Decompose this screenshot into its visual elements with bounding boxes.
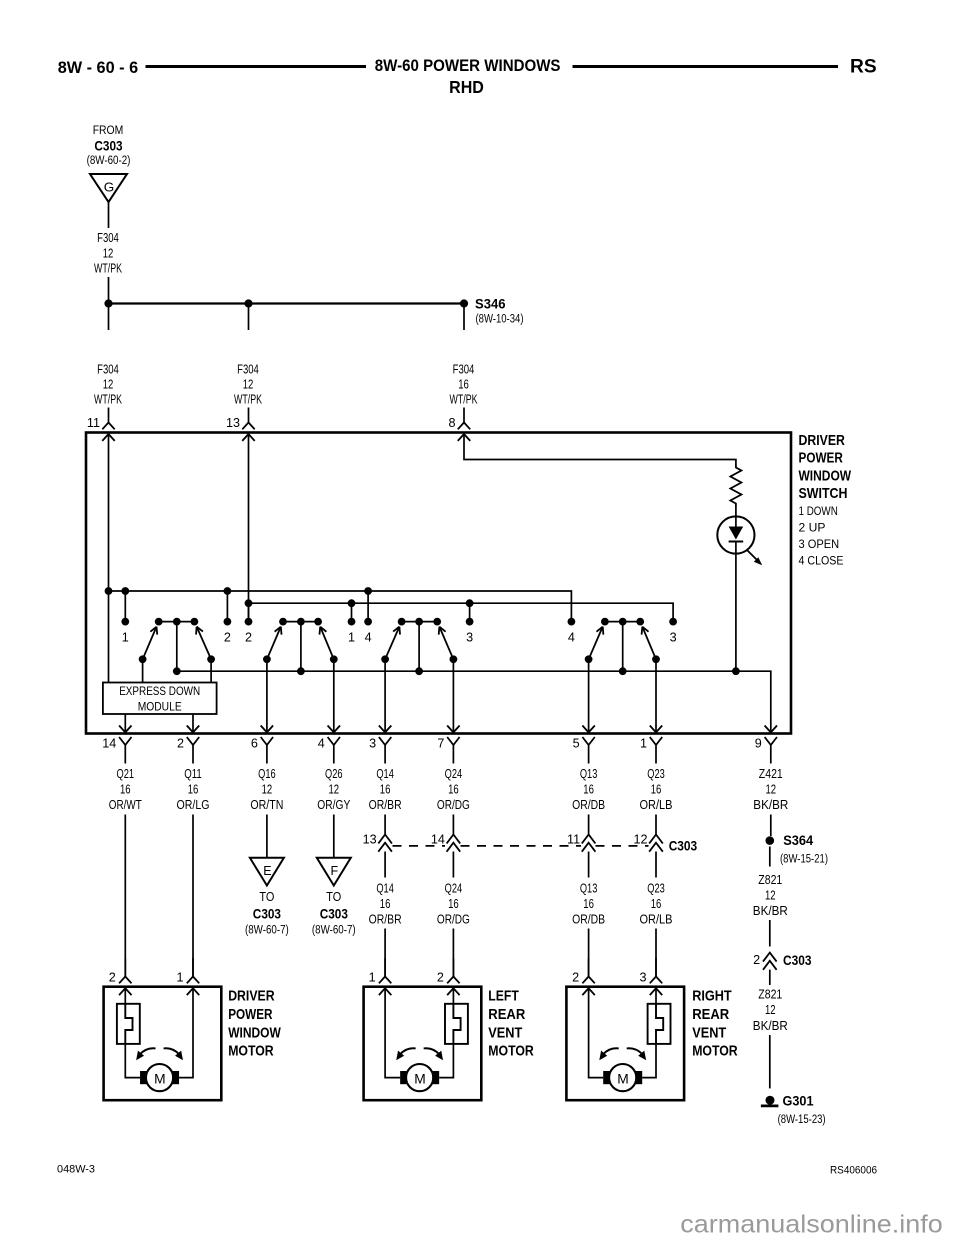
label TO C303 (8W-60-7) [245,890,289,937]
junction dot bus2 contact 3 stub [466,599,474,607]
svg-text:OR/TN: OR/TN [250,798,283,812]
svg-text:3: 3 [639,971,646,985]
ground G301 [761,1094,826,1127]
wire Q26 down to connector F [333,815,335,858]
svg-text:M: M [617,1070,629,1086]
driver power window motor connector arrow pin 1 [187,988,199,995]
left rear vent motor wire breaker to motor [439,1044,453,1078]
svg-text:(8W-10-34): (8W-10-34) [476,314,524,326]
driver power window motor connector arrow pin 2 [119,988,131,995]
svg-text:16: 16 [583,897,594,911]
wire switch contact x=266.9 to box bottom [266,659,268,732]
contact 4 stub x=368.1 [364,591,372,645]
svg-text:14: 14 [431,833,445,847]
svg-text:Q13: Q13 [580,767,598,781]
wire label F304 16 WT/PK [450,363,478,407]
svg-text:OR/DB: OR/DB [572,913,605,927]
wire label F304 12 WT/PK [234,363,262,407]
svg-text:16: 16 [651,783,662,797]
wire label Q14 16 OR/BR [369,767,402,812]
bus wire contacts 2-1-3 (lower) [249,603,674,621]
connector arrow into switch pin 11 [102,434,114,441]
splice S364 [766,833,829,866]
svg-text:Q11: Q11 [184,767,202,781]
svg-text:3: 3 [670,631,677,645]
svg-text:7: 7 [437,737,444,751]
wire label Q26 12 OR/GY [317,767,350,812]
svg-text:OR/LB: OR/LB [640,913,673,927]
wire label Q21 16 OR/WT [109,767,142,812]
wire Q21 to driver motor [124,815,126,977]
wire Z421 to splice S364 [770,815,772,837]
wire module output to pin 14 [124,714,126,732]
left rear vent motor circuit breaker [445,1004,468,1044]
wire switch contact x=588.6 to box bottom [588,659,590,732]
svg-text:2: 2 [224,631,231,645]
connector arrow out of switch pin 7 [447,725,459,732]
svg-text:16: 16 [380,897,391,911]
svg-text:OR/DG: OR/DG [437,798,470,812]
svg-text:2: 2 [437,971,444,985]
wire label Q13 16 OR/DB [572,767,605,812]
svg-text:F: F [330,864,338,878]
svg-text:E: E [263,864,271,878]
svg-text:BK/BR: BK/BR [753,904,788,918]
wire switch contact x=385.1 to box bottom [384,659,386,732]
switch common bus wire [177,671,771,733]
svg-text:1: 1 [176,971,183,985]
svg-text:Z421: Z421 [759,767,783,781]
resistor (illumination dropping) [730,465,741,507]
svg-text:2: 2 [177,737,184,751]
svg-text:OR/BR: OR/BR [369,913,402,927]
svg-text:F304: F304 [237,363,259,377]
wire label F304 12 WT/PK (feed) [94,231,122,276]
connector half (male) pin 7 [437,737,459,764]
svg-text:12: 12 [262,783,273,797]
inline connector C303 dashed gang line [393,845,649,847]
inline connector C303 cavity 11 [567,833,595,852]
left rear vent motor wire into breaker [452,988,454,1004]
svg-text:13: 13 [363,833,377,847]
left rear vent motor wire other side to motor [385,988,400,1077]
connector arrow out of switch pin 6 [261,725,273,732]
wire label Q23 16 OR/LB [640,767,673,812]
svg-text:POWER: POWER [228,1007,273,1023]
wire label Z821 12 BK/BR (lower) [753,987,788,1033]
junction dot bus1 contact 4 stub [364,587,372,595]
svg-text:12: 12 [243,378,254,392]
express down module box [103,683,217,715]
switch wiper driver window [139,618,215,675]
left rear vent motor armature M [400,1064,439,1091]
svg-text:WINDOW: WINDOW [228,1025,281,1041]
wire label Q11 16 OR/LG [177,767,210,812]
svg-text:8W-60 POWER WINDOWS: 8W-60 POWER WINDOWS [375,56,561,75]
wire Q23 upper segment [655,815,657,835]
wire Q13 to motor [588,929,590,977]
driver power window motor box [104,987,222,1100]
junction dot pin13/bus2 [245,599,253,607]
junction dot left [104,299,112,307]
svg-text:carmanualsonline.info: carmanualsonline.info [680,1211,943,1239]
svg-text:12: 12 [633,833,647,847]
wire below S364 [769,847,771,867]
svg-text:OR/WT: OR/WT [109,798,142,812]
right rear vent motor connector arrow pin 3 [650,988,662,995]
inline connector C303 cavity 12 [633,833,662,852]
svg-text:MOTOR: MOTOR [228,1044,274,1060]
junction dot bus2 contact 1 stub [348,599,356,607]
svg-text:2: 2 [245,631,252,645]
contact 2 stub x=248.5 [245,603,253,644]
label TO C303 (8W-60-7) [312,890,356,937]
switch wiper left vent [381,618,457,675]
svg-text:LEFT: LEFT [488,989,519,1005]
splice label S346 (8W-10-34) [475,297,524,326]
svg-text:16: 16 [448,783,459,797]
connector arrow out of switch pin 1 [650,725,662,732]
right rear vent motor rotation arrows [599,1048,646,1060]
wire down to connector pin 11 [108,408,110,423]
svg-text:RHD: RHD [449,77,484,97]
wire pin 11 feed down to express down module [108,434,110,683]
left rear vent motor connector arrow pin 1 [379,988,391,995]
svg-text:1 DOWN: 1 DOWN [799,504,838,518]
svg-text:Q23: Q23 [647,882,665,896]
wire Q13 upper segment [588,815,590,835]
header rule left [146,65,367,68]
wire Q14 upper segment [384,815,386,835]
svg-text:BK/BR: BK/BR [753,1019,788,1033]
svg-text:Q24: Q24 [445,767,463,781]
wire label F304 12 WT/PK [94,363,122,407]
junction dot pin11/bus1 [105,587,113,595]
right rear vent motor wire breaker to motor [642,1044,656,1078]
svg-text:14: 14 [102,737,116,751]
connector half (male) pin 14 [102,737,131,764]
wire F304 branch x=464 [463,304,465,331]
svg-text:11: 11 [567,833,580,847]
svg-text:3 OPEN: 3 OPEN [799,537,840,551]
svg-text:G: G [104,181,115,195]
connector arrow into switch pin 8 [458,434,470,441]
switch box legend 1 DOWN 2 UP 3 OPEN 4 CLOSE [799,504,844,567]
connector half (female) pin 11 [87,416,115,430]
svg-text:2: 2 [109,971,116,985]
svg-text:TO: TO [326,890,341,904]
off-page connector triangle E [250,858,284,886]
svg-text:RS406006: RS406006 [830,1165,877,1177]
svg-text:Q14: Q14 [376,882,394,896]
svg-text:2 UP: 2 UP [799,520,826,534]
right rear vent motor circuit breaker [648,1004,671,1044]
svg-text:16: 16 [188,783,199,797]
svg-text:12: 12 [765,889,776,903]
left rear vent motor rotation arrows [396,1048,443,1060]
svg-text:Q23: Q23 [647,767,665,781]
right rear vent motor wire other side to motor [589,988,604,1077]
right rear vent motor box [566,987,684,1100]
wire label Q23 16 OR/LB (lower) [640,882,673,927]
svg-text:16: 16 [380,783,391,797]
wire from triangle G down [108,202,110,228]
svg-text:(8W-15-23): (8W-15-23) [778,1114,826,1126]
svg-text:RIGHT: RIGHT [692,989,732,1005]
wire Q14 below connector [384,852,386,878]
contact 4 terminal dot (end of bus1) [568,618,576,645]
wire label Q13 16 OR/DB (lower) [572,882,605,927]
off-page connector triangle G [90,174,127,202]
svg-text:WT/PK: WT/PK [94,393,122,407]
switch wiper passenger window [263,618,338,675]
connector arrow out of switch pin 4 [328,725,340,732]
svg-text:8W - 60 - 6: 8W - 60 - 6 [58,58,139,77]
wire pin 13 feed down to contact 2 [248,434,250,622]
inline connector C303 cavity 13 [363,833,392,852]
contact 1 stub x=125.3 [121,591,129,645]
connector half (female) pin 13 [226,416,255,430]
right rear vent motor connector pin 2 [572,958,595,985]
wire module output to pin 2 [192,714,194,732]
connector arrow out of switch pin 5 [582,725,594,732]
wire label Q24 16 OR/DG (lower) [437,882,470,927]
svg-text:Q13: Q13 [580,882,598,896]
splice S346 dot [460,299,468,307]
svg-text:WT/PK: WT/PK [94,262,122,276]
svg-text:Q14: Q14 [376,767,394,781]
svg-text:WT/PK: WT/PK [234,393,262,407]
left rear vent motor box [364,987,482,1100]
wire Q24 upper segment [452,815,454,835]
svg-text:16: 16 [458,378,469,392]
svg-text:C303: C303 [253,907,282,922]
driver power window motor connector pin 1 [176,958,199,985]
svg-text:(8W-60-7): (8W-60-7) [312,925,356,937]
svg-text:4: 4 [318,737,325,751]
svg-text:M: M [414,1070,426,1086]
svg-text:Z821: Z821 [758,987,782,1001]
wire label Q24 16 OR/DG [437,767,470,812]
junction dot LED/common bus [732,667,740,675]
svg-text:MOTOR: MOTOR [488,1044,534,1060]
wire label Z821 12 BK/BR (upper) [753,873,788,918]
connector half (male) pin 2 [177,737,199,764]
right rear vent motor connector arrow pin 2 [582,988,594,995]
off-page connector triangle F [317,858,351,886]
LED emission arrow [748,551,763,566]
svg-text:Q21: Q21 [117,767,135,781]
wire Q13 below connector [588,852,590,878]
splice S346 bus wire [109,302,465,304]
wire label Q16 12 OR/TN [250,767,283,812]
svg-text:DRIVER: DRIVER [799,433,846,449]
svg-text:MOTOR: MOTOR [692,1044,738,1060]
svg-text:RS: RS [850,56,877,77]
wire Z821 to connector C303 [769,920,771,947]
wire label Q14 16 OR/BR (lower) [369,882,402,927]
svg-text:2: 2 [753,953,760,967]
right rear vent motor wire into breaker [655,988,657,1004]
driver power window motor rotation arrows [136,1048,183,1060]
wire F304 branch x=108.5 [108,304,110,331]
svg-text:WT/PK: WT/PK [450,393,478,407]
connector arrow out of switch pin 9 [765,725,777,732]
svg-text:C303: C303 [320,907,349,922]
inline connector C303 cavity 2 (ground) [753,953,812,970]
wire down to connector pin 8 [463,408,465,423]
svg-text:(8W-60-2): (8W-60-2) [87,155,131,167]
connector half (female) pin 8 [448,416,470,430]
svg-text:WINDOW: WINDOW [799,468,852,484]
junction dot bus1 contact 1 stub [121,587,129,595]
left rear vent motor connector pin 1 [369,958,392,985]
svg-text:OR/BR: OR/BR [369,798,402,812]
wire Q14 to motor [384,929,386,977]
driver power window motor connector pin 2 [109,958,132,985]
wire down to splice bus [108,277,110,304]
wire Q16 down to connector E [266,815,268,858]
wire Q24 below connector [452,852,454,878]
right rear vent motor armature M [603,1064,642,1091]
wire F304 branch x=248.5 [248,304,250,331]
svg-text:C303: C303 [94,139,123,154]
connector arrow out of switch pin 2 [187,725,199,732]
wire Q24 to motor [452,929,454,977]
svg-text:S364: S364 [783,833,813,848]
svg-text:8: 8 [448,416,455,430]
svg-text:Z821: Z821 [758,873,782,887]
svg-text:S346: S346 [475,297,506,312]
LED indicator lamp [717,516,754,553]
svg-text:6: 6 [251,737,258,751]
wire Q11 to driver motor [192,815,194,977]
svg-text:2: 2 [572,971,579,985]
svg-text:13: 13 [226,416,240,430]
svg-text:F304: F304 [97,363,119,377]
svg-text:POWER: POWER [799,451,844,467]
wire down to connector pin 13 [248,408,250,423]
svg-text:3: 3 [369,737,376,751]
svg-text:12: 12 [765,1003,776,1017]
svg-text:1: 1 [348,631,355,645]
source label FROM C303 (8W-60-2) [87,123,131,167]
contact 1 stub x=351.5 [348,603,356,644]
wire Z821 to ground G301 [769,1035,771,1088]
svg-text:Q26: Q26 [325,767,343,781]
driver power window motor wire other side to motor [179,988,193,1077]
svg-text:Q24: Q24 [445,882,463,896]
svg-text:12: 12 [766,783,777,797]
bus wire contacts 1-2-4 (upper) [109,591,572,622]
switch wiper right vent [585,618,660,675]
connector half (male) pin 4 [318,737,340,764]
svg-text:OR/GY: OR/GY [317,798,350,812]
wire resistor to LED [735,506,737,516]
wire switch contact x=333.8 to box bottom [333,659,335,732]
svg-text:16: 16 [651,897,662,911]
connector half (male) pin 5 [573,737,595,764]
svg-text:9: 9 [755,737,762,751]
wire switch contact x=453.4 to box bottom [452,659,454,732]
wire LED to common bus [735,554,737,672]
left rear vent motor connector arrow pin 2 [447,988,459,995]
wire Q23 below connector [655,852,657,878]
svg-text:Q16: Q16 [258,767,276,781]
svg-text:F304: F304 [97,231,119,245]
svg-text:4: 4 [568,631,575,645]
svg-text:3: 3 [466,631,473,645]
svg-text:4 CLOSE: 4 CLOSE [799,553,844,567]
svg-text:FROM: FROM [93,123,124,137]
wire label Z421 12 BK/BR [753,767,788,812]
svg-text:12: 12 [329,783,340,797]
right rear vent motor connector pin 3 [639,958,662,985]
connector arrow out of switch pin 3 [379,725,391,732]
driver power window motor armature M [140,1064,179,1091]
svg-text:OR/LG: OR/LG [177,798,210,812]
svg-text:OR/DB: OR/DB [572,798,605,812]
contact 3 stub x=469.6 [466,603,474,644]
connector arrow out of switch pin 14 [119,725,131,732]
svg-text:12: 12 [103,247,114,261]
svg-text:11: 11 [87,416,100,430]
svg-text:F304: F304 [453,363,475,377]
svg-text:1: 1 [369,971,376,985]
svg-text:12: 12 [103,378,114,392]
svg-text:DRIVER: DRIVER [228,989,275,1005]
wire Q23 to motor [655,929,657,977]
svg-text:VENT: VENT [692,1025,726,1041]
svg-text:1: 1 [640,737,647,751]
svg-text:REAR: REAR [692,1007,729,1023]
svg-text:SWITCH: SWITCH [799,486,848,502]
svg-text:1: 1 [122,631,129,645]
junction dot middle [244,299,252,307]
driver power window switch box [86,433,791,734]
svg-text:5: 5 [573,737,580,751]
wire pin 8 feed to illumination lamp [464,434,736,465]
driver power window motor wire into breaker [124,988,126,1004]
switch box label DRIVER POWER WINDOW SWITCH [799,433,852,502]
connector half (male) pin 9 [755,737,777,764]
left rear vent motor label [488,989,534,1060]
wire below C303 ground [769,970,771,985]
svg-text:C303: C303 [783,953,812,968]
connector arrow into switch pin 13 [242,434,254,441]
connector half (male) pin 6 [251,737,273,764]
svg-text:C303: C303 [669,839,698,854]
svg-text:G301: G301 [783,1094,814,1109]
junction dot bus1 contact 2 stub [224,587,232,595]
wire switch contact x=656 to box bottom [655,659,657,732]
connector half (male) pin 3 [369,737,391,764]
svg-text:16: 16 [120,783,131,797]
left rear vent motor connector pin 2 [437,958,460,985]
svg-text:(8W-60-7): (8W-60-7) [245,925,289,937]
wire driver switch left contact to module [142,659,144,682]
wire driver switch right contact to module [210,659,212,682]
svg-text:16: 16 [448,897,459,911]
inline connector C303 cavity 14 [431,833,460,852]
driver power window motor label [228,989,281,1060]
driver power window motor wire breaker to motor [125,1044,140,1078]
svg-text:048W-3: 048W-3 [57,1164,95,1176]
svg-text:OR/LB: OR/LB [640,798,673,812]
contact 3 terminal dot (end of bus2) [669,618,677,645]
svg-text:TO: TO [259,890,274,904]
svg-text:(8W-15-21): (8W-15-21) [780,854,828,866]
